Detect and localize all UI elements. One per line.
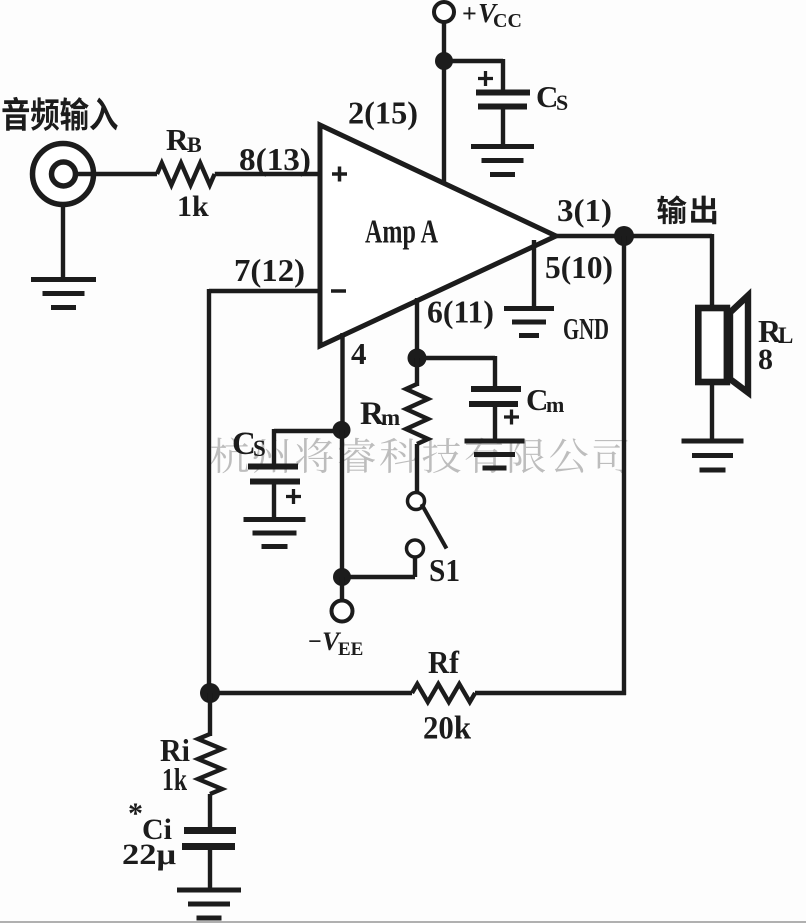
svg-text:4: 4: [351, 336, 367, 371]
capacitor CS top plus: [478, 71, 493, 86]
label Rf: [428, 644, 459, 680]
op-amp + input mark: [332, 167, 347, 182]
wire input ground: [61, 203, 65, 279]
wire junction to CS bottom: [274, 429, 342, 467]
label pin 6(11): [427, 294, 494, 330]
wire pin 7: [209, 289, 320, 293]
svg-text:L: L: [778, 323, 793, 348]
svg-text:B: B: [187, 132, 202, 157]
op-amp U1 Amp A: [320, 125, 556, 346]
label RL value 8: [758, 343, 773, 376]
capacitor Cm: [469, 389, 521, 404]
svg-text:*: *: [128, 797, 143, 830]
capacitor Cm plus: [504, 410, 519, 425]
wire Rf left: [210, 691, 412, 695]
label S1: [429, 552, 460, 588]
wire pin6 to Rm: [415, 358, 419, 386]
wire speaker to ground: [710, 383, 714, 440]
node output junction: [614, 226, 634, 246]
wire RB to pin 8: [215, 172, 320, 176]
svg-text:−: −: [308, 629, 322, 655]
label Amp A: [365, 214, 438, 251]
resistor RB: [157, 163, 215, 185]
scan artifact bottom strip: [0, 921, 806, 923]
wire junction to Cm: [417, 356, 495, 389]
node VEE junction: [333, 568, 351, 586]
label RB value 1k: [177, 190, 209, 223]
svg-text:3(1): 3(1): [557, 192, 612, 228]
terminal +VCC: [434, 2, 454, 22]
svg-text:R: R: [166, 122, 189, 157]
label Ri value 1k: [162, 761, 187, 797]
svg-text:+: +: [462, 0, 477, 28]
label 输出: [657, 195, 716, 224]
ground CS top: [471, 147, 534, 175]
svg-text:1k: 1k: [162, 761, 187, 797]
svg-text:EE: EE: [338, 639, 363, 660]
label pin 3(1): [557, 192, 612, 228]
label pin 4: [351, 336, 367, 371]
label 音频输入: [2, 97, 117, 131]
svg-text:Amp A: Amp A: [365, 214, 438, 251]
wire pin 2 to +VCC: [442, 21, 446, 183]
wire Ci to ground: [208, 850, 212, 890]
node feedback junction: [200, 683, 220, 703]
ground Cm: [465, 441, 525, 468]
wire output down to speaker: [710, 234, 714, 308]
wire S1 to VEE rail: [342, 556, 415, 577]
label Cm: [526, 382, 564, 417]
label +VCC: [462, 0, 522, 32]
wire CS to ground: [501, 109, 505, 145]
wire pin4 down to VEE node: [340, 430, 344, 577]
svg-text:S: S: [556, 90, 568, 115]
label Ci value 22u: [122, 838, 176, 871]
capacitor CS bottom plus: [286, 489, 301, 504]
label pin 2(15): [348, 95, 418, 131]
label RB: [166, 122, 202, 157]
resistor Rf: [412, 684, 475, 702]
label Rm: [360, 396, 400, 432]
svg-text:6(11): 6(11): [427, 294, 494, 330]
ground input: [31, 280, 96, 308]
label Ri: [160, 732, 190, 768]
wire feedback right: [622, 236, 626, 695]
svg-text:CC: CC: [493, 10, 522, 32]
label CS top: [536, 79, 568, 115]
label Ci: [128, 797, 172, 846]
label GND: [563, 311, 609, 346]
wire Ri to Ci: [208, 794, 212, 831]
wire VCC to CS: [444, 59, 503, 92]
node VCC junction: [435, 52, 453, 70]
ground speaker: [682, 441, 744, 470]
resistor Rm: [406, 384, 428, 444]
svg-text:m: m: [546, 392, 564, 417]
input connector J1: [33, 144, 94, 205]
label -VEE: [308, 627, 363, 660]
svg-text:S: S: [253, 436, 266, 461]
wire junction to Ri: [208, 693, 212, 736]
wire Rf right: [475, 691, 626, 695]
label pin 5(10): [545, 249, 613, 285]
svg-text:8: 8: [758, 343, 773, 376]
label pin 8(13): [239, 141, 311, 177]
wire CS bottom to ground: [272, 484, 276, 518]
svg-text:Rf: Rf: [428, 644, 459, 680]
ground CS bottom: [244, 520, 306, 547]
wire input to RB: [74, 172, 157, 176]
wire Cm to ground: [493, 406, 497, 439]
watermark 杭州将睿科技有限公司: [211, 438, 628, 474]
capacitor Ci: [182, 831, 236, 847]
wire VEE node to terminal: [340, 577, 344, 601]
label RL: [758, 313, 793, 349]
svg-text:8(13): 8(13): [239, 141, 311, 177]
node pin4 junction: [333, 421, 351, 439]
ground GND pin5: [504, 309, 554, 336]
label CS bottom: [232, 426, 266, 462]
svg-text:5(10): 5(10): [545, 249, 613, 285]
wire output: [554, 234, 712, 238]
svg-text:1k: 1k: [177, 190, 209, 223]
wire feedback left: [207, 289, 211, 695]
switch S1: [407, 493, 447, 558]
svg-text:22μ: 22μ: [122, 838, 176, 871]
svg-text:7(12): 7(12): [234, 252, 305, 288]
svg-text:m: m: [381, 405, 400, 430]
wire pin 6: [415, 298, 419, 358]
svg-text:2(15): 2(15): [348, 95, 418, 131]
capacitor CS (negative supply): [248, 467, 300, 482]
wire pin 4: [340, 333, 344, 430]
wire Rm to S1: [415, 444, 419, 493]
svg-text:20k: 20k: [423, 711, 472, 747]
svg-text:GND: GND: [563, 311, 609, 346]
wire pin 5: [532, 240, 536, 307]
op-amp - input mark: [331, 289, 346, 293]
ground Ci: [177, 890, 241, 918]
resistor Ri: [198, 734, 222, 794]
label pin 7(12): [234, 252, 305, 288]
svg-text:S1: S1: [429, 552, 460, 588]
capacitor CS (supply +): [476, 93, 530, 107]
label Rf value 20k: [423, 711, 472, 747]
node pin6 junction: [408, 349, 427, 368]
terminal -VEE: [332, 601, 353, 622]
speaker RL: [698, 296, 748, 393]
